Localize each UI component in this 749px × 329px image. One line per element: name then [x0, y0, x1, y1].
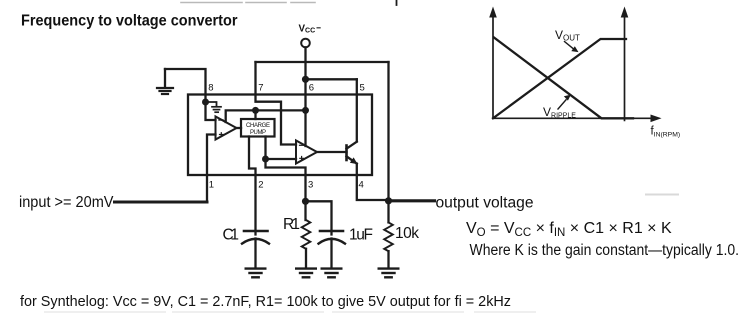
graph curve Vout — [493, 39, 626, 118]
node rail pin6 — [302, 107, 309, 114]
svg-text:fIN(RPM): fIN(RPM) — [651, 126, 681, 139]
wire node to U3 non-inverting input — [266, 158, 297, 160]
ground GND1 left — [164, 69, 166, 88]
wire charge pump bottom-right pin — [264, 137, 266, 160]
node pin8 junction — [202, 99, 209, 106]
wire pin6 to op-amp U3 top — [304, 110, 306, 146]
capacitor C1 — [244, 230, 268, 233]
wire U3 output to Q1 base — [317, 151, 347, 153]
svg-text:Frequency to voltage convertor: Frequency to voltage convertor — [21, 12, 238, 29]
svg-text:PUMP: PUMP — [250, 130, 266, 136]
wire U2 output to charge pump — [237, 127, 242, 129]
transistor Q1 — [345, 146, 348, 161]
wire ground to pin 8 — [165, 69, 206, 102]
wire internal Vcc rail — [226, 110, 306, 122]
scan artifact faint bottom ghost — [45, 311, 535, 313]
scan artifact faint smudge right — [646, 194, 678, 196]
resistor R1 — [304, 201, 306, 220]
node charge-pump output — [262, 156, 269, 163]
scan artifact streak top edge — [181, 2, 315, 4]
wire Vcc vertical to pin 6 — [304, 47, 306, 110]
IC box U1 (LM2907 outline) — [188, 95, 372, 176]
graph label arrow Vripple — [558, 100, 566, 109]
svg-text:2: 2 — [258, 179, 263, 190]
wire rail right drop to output node — [387, 62, 389, 201]
wire pin8 to op-amp U2 inverting input — [206, 102, 216, 120]
graph curve Vripple — [494, 38, 633, 119]
ground GND5 under 1uF — [322, 269, 342, 278]
node Vcc junction — [302, 76, 309, 83]
wire Vcc to pin5 — [306, 78, 357, 80]
svg-text:7: 7 — [258, 83, 263, 94]
wire Q1 emitter to pin 4 and output node — [357, 164, 389, 200]
label Vcc dash — [317, 27, 321, 29]
svg-text:input >= 20mV: input >= 20mV — [19, 194, 114, 211]
op-amp U2 — [216, 117, 237, 140]
node rail to charge pump — [252, 107, 259, 114]
wire pin3 node to 1uF capacitor — [306, 201, 332, 234]
svg-text:3: 3 — [308, 179, 313, 190]
node pin3 junction — [302, 198, 309, 205]
svg-text:Where K is the gain constant—t: Where K is the gain constant—typically 1… — [470, 242, 740, 259]
ground GND2 internal — [212, 107, 221, 112]
svg-text:VCC: VCC — [299, 23, 316, 34]
wire pin7 to op-amp U3 inverting input — [256, 62, 297, 145]
wire output — [389, 199, 435, 202]
svg-text:8: 8 — [208, 83, 213, 94]
svg-text:for Synthelog: Vcc = 9V, C1 =: for Synthelog: Vcc = 9V, C1 = 2.7nF, R1=… — [20, 293, 511, 310]
svg-text:4: 4 — [359, 179, 364, 190]
wire charge pump bottom-left pin to pin 2 — [249, 137, 256, 235]
wire junction to internal ground — [206, 102, 217, 106]
wire charge pump top pin — [254, 110, 256, 119]
svg-text:C1: C1 — [223, 227, 240, 244]
svg-text:R1: R1 — [283, 216, 300, 233]
svg-text:CHARGE: CHARGE — [246, 123, 270, 129]
svg-text:VO = VCC × fIN × C1 × R1 × K: VO = VCC × fIN × C1 × R1 × K — [466, 220, 672, 239]
ground GND3 under C1 — [246, 269, 266, 278]
svg-text:10k: 10k — [395, 225, 419, 242]
svg-text:output voltage: output voltage — [436, 195, 534, 212]
scan artifact tick — [396, 0, 398, 5]
svg-text:1uF: 1uF — [349, 227, 373, 244]
ground GND6 under 10k — [379, 269, 399, 278]
svg-text:6: 6 — [309, 83, 314, 94]
graph axes — [493, 14, 652, 120]
capacitor 1uF — [320, 230, 343, 233]
svg-text:VOUT: VOUT — [555, 28, 580, 43]
wire op-amp U2 non-inverting input to pin 1 — [207, 135, 216, 203]
wire node to pin 3 — [266, 159, 306, 201]
charge pump U4 box — [241, 119, 275, 137]
svg-text:5: 5 — [360, 83, 365, 94]
graph label arrow Vout — [565, 42, 574, 49]
wire pin5 vertical / Q1 collector feed — [356, 79, 358, 141]
node output junction — [385, 197, 392, 204]
wire top rail — [256, 61, 389, 63]
resistor 10k — [387, 201, 389, 223]
op-amp U3 — [296, 141, 317, 164]
Vcc terminal — [301, 39, 310, 48]
wire input — [115, 201, 208, 204]
svg-text:1: 1 — [209, 179, 214, 190]
ground GND4 under R1 — [296, 269, 316, 278]
